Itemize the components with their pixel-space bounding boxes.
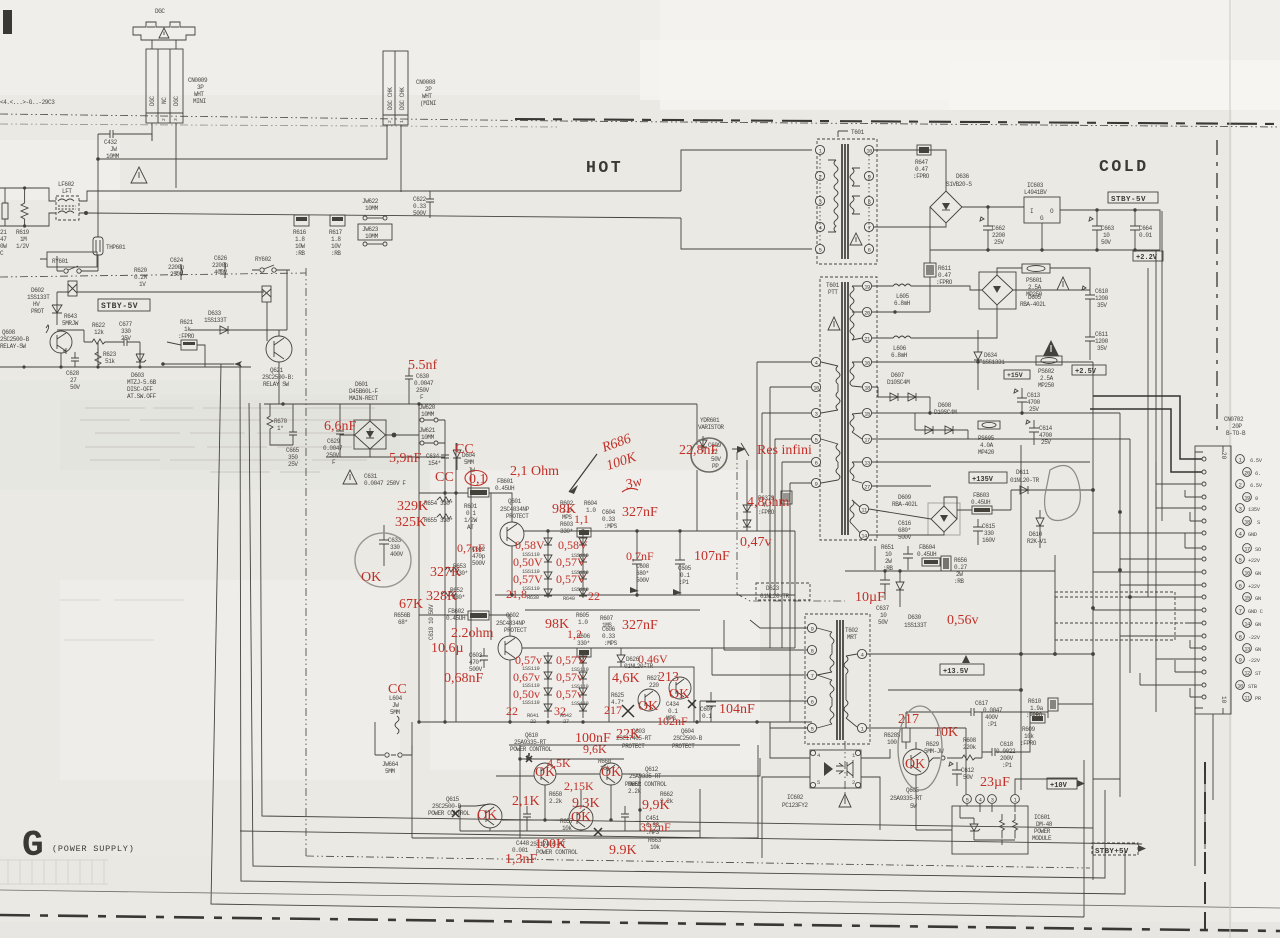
svg-text:STBY+5V: STBY+5V	[1095, 848, 1129, 856]
emitter wire Q601	[511, 546, 513, 595]
svg-text:Res infini: Res infini	[757, 443, 812, 458]
pin number 11	[1243, 693, 1252, 702]
svg-text:2200: 2200	[992, 232, 1006, 239]
svg-text:9,9K: 9,9K	[642, 798, 670, 813]
svg-text:MODULE: MODULE	[1032, 835, 1052, 842]
svg-text:0,68nF: 0,68nF	[444, 671, 484, 686]
svg-text:250V: 250V	[326, 452, 340, 459]
diode D630	[896, 571, 904, 607]
resistors inside module	[1000, 814, 1018, 839]
svg-text:C434: C434	[666, 701, 680, 708]
CN0009 pin texts DGC NC DGC	[149, 96, 180, 121]
wire Q605 top	[906, 712, 933, 762]
svg-text::FPRO: :FPRO	[178, 333, 195, 340]
resistor R654	[437, 497, 451, 502]
diode D628	[617, 648, 625, 667]
svg-text:22: 22	[506, 704, 518, 718]
T601PTT left pin 9	[811, 478, 820, 487]
svg-text:R656: R656	[954, 557, 968, 564]
svg-text:C614: C614	[1039, 425, 1053, 432]
svg-text:RBA-402L: RBA-402L	[1020, 301, 1046, 308]
T602 pin 6	[807, 696, 816, 705]
line filter LF602 body	[56, 196, 79, 220]
svg-text:10: 10	[885, 551, 892, 558]
T601PTT windings right	[850, 286, 854, 340]
wires pins 11/14 to D609	[869, 509, 944, 535]
diode ladder 2 left chain	[547, 652, 549, 718]
resistor R652	[442, 591, 456, 596]
svg-text:5: 5	[811, 726, 814, 733]
svg-text:0: 0	[1255, 495, 1258, 502]
svg-text:2W: 2W	[885, 558, 892, 565]
svg-text:R607: R607	[600, 615, 614, 622]
svg-text:0,57V: 0,57V	[556, 555, 586, 569]
pin number 2	[1236, 480, 1245, 489]
svg-text:R601: R601	[464, 503, 478, 510]
transistor Q615	[478, 804, 502, 828]
svg-text:R658: R658	[549, 791, 563, 798]
svg-text:0.33: 0.33	[602, 633, 616, 640]
T601 warning triangle	[850, 233, 862, 245]
svg-text::RB: :RB	[295, 250, 305, 257]
svg-text:1SS133T: 1SS133T	[27, 294, 50, 301]
T601PTT pin 19	[862, 281, 871, 290]
svg-text:GN: GN	[1255, 621, 1261, 628]
svg-text:OK: OK	[571, 810, 591, 825]
T601PTT core	[842, 282, 848, 535]
svg-text:C637: C637	[876, 605, 890, 612]
+2.5V legend box	[1072, 365, 1106, 375]
svg-text:2,1K: 2,1K	[512, 794, 540, 809]
svg-text:35V: 35V	[1097, 345, 1107, 352]
svg-text:R663: R663	[648, 837, 662, 844]
svg-text:AT.SW.OFF: AT.SW.OFF	[127, 393, 157, 400]
transistor Q603	[638, 689, 660, 711]
svg-text:0.0047: 0.0047	[323, 445, 343, 452]
svg-text:C604: C604	[602, 509, 616, 516]
svg-text:JW620: JW620	[419, 404, 436, 411]
chain line at relay level	[0, 273, 306, 277]
svg-text:CN0009: CN0009	[188, 77, 208, 84]
svg-text:330: 330	[121, 328, 131, 335]
svg-text:50V: 50V	[963, 774, 973, 781]
CN0009 leads down	[152, 123, 176, 141]
svg-text:-22V: -22V	[1248, 657, 1261, 664]
svg-text:C624: C624	[170, 257, 184, 264]
ferrite bead FB602	[468, 611, 489, 620]
svg-text:0.45UH: 0.45UH	[495, 485, 515, 492]
svg-text:6.: 6.	[1255, 470, 1261, 477]
regulator IC603	[1024, 197, 1060, 223]
resistor R670	[267, 404, 273, 440]
svg-text:0.0047: 0.0047	[983, 707, 1003, 714]
wire pin20 centre tap	[872, 311, 930, 313]
hot/cold dash-dot separator below T602	[844, 741, 846, 800]
svg-text:L605: L605	[896, 293, 910, 300]
svg-text:C663: C663	[1101, 225, 1115, 232]
svg-text:13: 13	[864, 460, 870, 467]
transistor Q608	[50, 331, 72, 353]
svg-text:C664: C664	[1139, 225, 1153, 232]
svg-text:Q608: Q608	[2, 329, 16, 336]
capacitor C617	[965, 708, 982, 716]
wires to PTT pins	[757, 362, 812, 722]
warning triangle mid	[131, 167, 147, 183]
svg-text:JW: JW	[110, 146, 117, 153]
svg-text:25V: 25V	[288, 461, 298, 468]
wire bridge bottom to ground rail	[929, 207, 931, 250]
svg-text:POWER CONTROL: POWER CONTROL	[510, 746, 552, 753]
svg-text::P1: :P1	[1002, 762, 1012, 769]
fuse PS601	[1022, 264, 1050, 273]
svg-text:5MM: 5MM	[390, 709, 400, 716]
svg-text:27: 27	[70, 377, 77, 384]
pin number 16	[1243, 568, 1252, 577]
svg-text:1.0: 1.0	[578, 619, 588, 626]
T602 winding right	[844, 656, 848, 718]
svg-text:PROTECT: PROTECT	[672, 743, 695, 750]
svg-text:500V: 500V	[472, 560, 486, 567]
svg-text:WHT: WHT	[422, 93, 432, 100]
svg-text:FB601: FB601	[497, 478, 514, 485]
svg-text:2.2k: 2.2k	[549, 798, 563, 805]
svg-text:15: 15	[1244, 595, 1250, 602]
svg-text::MPS: :MPS	[604, 523, 618, 530]
svg-text:5.5nf: 5.5nf	[408, 358, 438, 373]
AC input rails from left	[0, 188, 56, 226]
svg-text:JW621: JW621	[419, 427, 436, 434]
svg-text:4,6K: 4,6K	[612, 671, 640, 686]
svg-text:6: 6	[815, 460, 818, 467]
svg-text:0.0047 250V F: 0.0047 250V F	[364, 480, 406, 487]
svg-text:98K: 98K	[545, 617, 569, 632]
bridge rectifier D609	[931, 506, 957, 532]
left edge component column	[2, 188, 8, 226]
svg-text:0.27: 0.27	[954, 564, 968, 571]
svg-text:D609: D609	[898, 494, 912, 501]
pin number 6	[1236, 581, 1245, 590]
svg-text:PROTECT: PROTECT	[506, 513, 529, 520]
svg-text:25V: 25V	[994, 239, 1004, 246]
svg-text:D10SC4M: D10SC4M	[887, 379, 910, 386]
svg-text:R617: R617	[329, 229, 343, 236]
wire pin7 to bridge bottom	[874, 223, 946, 227]
left enclosure vertical line 3	[249, 403, 1105, 878]
svg-text:+22V: +22V	[1248, 583, 1261, 590]
svg-text:RELAY-SW: RELAY-SW	[0, 343, 26, 350]
svg-text::FPRO: :FPRO	[913, 173, 930, 180]
svg-text:PROTECT: PROTECT	[504, 627, 527, 634]
svg-text:9,6K: 9,6K	[583, 742, 607, 756]
svg-text:2200p: 2200p	[212, 262, 229, 269]
svg-text:0,67v: 0,67v	[513, 670, 540, 684]
svg-text:23µF: 23µF	[980, 775, 1010, 790]
svg-text:CC: CC	[455, 442, 474, 457]
svg-text:CN0008: CN0008	[416, 79, 436, 86]
svg-text:250V: 250V	[416, 387, 430, 394]
svg-text:220k: 220k	[963, 744, 977, 751]
transistor Q605	[903, 749, 929, 775]
capacitor C614	[1026, 420, 1039, 445]
power module IC601 box	[952, 806, 1028, 854]
capacitor C616	[903, 546, 913, 570]
svg-text:L4941BV: L4941BV	[1024, 189, 1047, 196]
rail y=595	[495, 594, 795, 596]
svg-text:67K: 67K	[399, 597, 423, 612]
svg-text:C603: C603	[469, 652, 483, 659]
svg-text:(POWER SUPPLY): (POWER SUPPLY)	[52, 844, 135, 854]
lower rail to right	[86, 213, 681, 218]
T601PTT pin 16	[862, 357, 871, 366]
svg-text:FB604: FB604	[919, 544, 936, 551]
svg-text:C610: C610	[1095, 288, 1109, 295]
wires into pins	[1090, 396, 1202, 472]
diode D602 symbol	[52, 292, 62, 325]
svg-text:R656B: R656B	[394, 612, 411, 619]
plug leads	[152, 40, 176, 49]
bridge rectifier D636	[930, 191, 962, 223]
X marks	[622, 705, 634, 717]
secondary faint chain top	[0, 124, 560, 127]
capacitor C433	[379, 525, 389, 566]
T601 pin 3	[815, 196, 824, 205]
svg-text:PS602: PS602	[1038, 368, 1055, 375]
svg-text:6.5V: 6.5V	[1250, 482, 1263, 489]
bottom rail relay section	[0, 366, 251, 368]
svg-text:2,15K: 2,15K	[564, 779, 594, 793]
svg-text:327nF: 327nF	[622, 618, 658, 633]
left enclosure vertical line 1	[211, 364, 1084, 917]
svg-text:LFT: LFT	[62, 188, 72, 195]
T601 dashed box	[817, 139, 877, 264]
wires opto left	[762, 722, 810, 858]
svg-text:HOT: HOT	[586, 158, 623, 177]
capacitor C665	[289, 404, 297, 445]
T602 dashed box	[805, 614, 870, 744]
T601PTT left pin 5	[811, 434, 820, 443]
inner dash-dot border vertical at x=306	[305, 268, 307, 858]
svg-text:21: 21	[0, 229, 7, 236]
svg-text:Q601: Q601	[508, 498, 522, 505]
svg-text:RELAY SW: RELAY SW	[263, 381, 289, 388]
svg-text:0,50v: 0,50v	[513, 687, 540, 701]
svg-text:20: 20	[1244, 470, 1250, 477]
resistor box WW	[577, 528, 591, 537]
capacitor C607	[706, 692, 716, 722]
svg-text:500V: 500V	[413, 210, 427, 217]
svg-text:10.6µ: 10.6µ	[431, 641, 464, 656]
svg-text:5MRJW: 5MRJW	[62, 320, 79, 327]
svg-text:C677: C677	[119, 321, 133, 328]
diode ladder 1 right chain	[582, 531, 584, 598]
svg-text:R608: R608	[963, 737, 977, 744]
svg-text::FPRO: :FPRO	[936, 279, 953, 286]
relay RY602 contacts	[260, 268, 264, 272]
svg-text:CC: CC	[388, 682, 407, 697]
svg-text:OK: OK	[905, 757, 925, 772]
svg-text:9,3K: 9,3K	[572, 796, 600, 811]
svg-text:0.1: 0.1	[702, 713, 712, 720]
svg-text:2: 2	[852, 779, 855, 786]
svg-text:D633: D633	[208, 310, 222, 317]
svg-text:6: 6	[811, 699, 814, 706]
svg-text:1M: 1M	[20, 236, 27, 243]
svg-text:17: 17	[864, 437, 870, 444]
svg-text:D636: D636	[956, 173, 970, 180]
svg-text:-22V: -22V	[1248, 634, 1261, 641]
svg-text:0,57V: 0,57V	[556, 572, 586, 586]
svg-text:1,1: 1,1	[574, 512, 589, 526]
transistor Q604	[669, 677, 691, 699]
svg-text:R2K-V1: R2K-V1	[1027, 538, 1047, 545]
svg-text:7: 7	[811, 673, 814, 680]
wire T602 pin4 right	[866, 653, 1093, 655]
svg-text:330*: 330*	[440, 517, 453, 524]
svg-text:5,9nF: 5,9nF	[389, 451, 422, 466]
svg-text:THP601: THP601	[106, 244, 126, 251]
svg-text:2.5A: 2.5A	[1040, 375, 1054, 382]
resistor R655	[437, 514, 451, 519]
svg-text:C612: C612	[961, 767, 975, 774]
svg-text:OK: OK	[638, 699, 658, 714]
svg-text:COLD: COLD	[1099, 157, 1149, 176]
T602 pin 8	[807, 645, 816, 654]
IC603 output wire	[1060, 210, 1160, 250]
+13.5V legend box	[940, 664, 984, 675]
capacitor C630	[405, 368, 413, 404]
svg-text:R640: R640	[563, 595, 575, 602]
top chain line (dash-dot page separator)	[0, 114, 1280, 127]
svg-text:Q615: Q615	[446, 796, 460, 803]
T601 secondary winding	[850, 168, 854, 214]
svg-text:FB602: FB602	[448, 608, 465, 615]
svg-text:PC123FY2: PC123FY2	[782, 802, 808, 809]
fusible resistor R647	[917, 145, 931, 155]
dashed rect right	[1055, 592, 1175, 640]
T602 pin 1	[857, 723, 866, 732]
svg-text:400V: 400V	[985, 714, 999, 721]
wire Q605 emitter	[915, 775, 917, 830]
svg-text:CC: CC	[435, 470, 454, 485]
svg-text:104nF: 104nF	[719, 702, 755, 717]
svg-text:0,46V: 0,46V	[638, 652, 668, 666]
wire relay down-left	[40, 256, 57, 271]
svg-text:327nF: 327nF	[622, 505, 658, 520]
T602 core	[837, 620, 843, 740]
svg-text::FPRO: :FPRO	[1020, 740, 1037, 747]
svg-text::P1: :P1	[679, 579, 689, 586]
svg-text:RY602: RY602	[255, 256, 272, 263]
fuse component near D602	[68, 281, 77, 296]
svg-text:325K: 325K	[395, 515, 426, 530]
T601PTT windings right lower	[850, 362, 854, 524]
junction dots input	[23, 186, 26, 189]
svg-text:10k: 10k	[1024, 733, 1034, 740]
coil L605	[872, 284, 982, 290]
svg-text:0.45UH: 0.45UH	[917, 551, 937, 558]
svg-text:6: 6	[868, 247, 871, 254]
ferrite bead FB601	[468, 488, 489, 497]
svg-text:(MINI: (MINI	[420, 100, 436, 107]
heavy dash line top right	[515, 119, 1280, 124]
svg-text:500V: 500V	[636, 577, 650, 584]
bridge rectifier D601	[354, 420, 386, 449]
svg-text:5MM: 5MM	[464, 459, 474, 466]
svg-text::P1: :P1	[987, 721, 997, 728]
secondary wires to right	[872, 362, 1130, 486]
svg-text:12: 12	[1244, 670, 1250, 677]
vertical bus x=471	[470, 470, 472, 665]
svg-text:C631: C631	[364, 473, 378, 480]
svg-text:C628: C628	[66, 370, 80, 377]
svg-text:JW: JW	[392, 702, 399, 709]
svg-text:0.2M: 0.2M	[134, 274, 148, 281]
svg-text:Q602: Q602	[506, 612, 520, 619]
RY601 switch contacts	[64, 269, 68, 273]
svg-text:15: 15	[864, 411, 870, 418]
svg-text:+22V: +22V	[1248, 557, 1261, 564]
connector CN0702 body	[1195, 446, 1231, 714]
svg-text:50V: 50V	[70, 384, 80, 391]
svg-text:10: 10	[866, 148, 872, 155]
svg-text:327K: 327K	[430, 565, 461, 580]
small fuse box to Q621 base	[262, 286, 271, 302]
pin number 5	[1236, 555, 1245, 564]
svg-text:20: 20	[1220, 452, 1227, 460]
vertical bus x=445	[444, 420, 446, 722]
svg-text:OK: OK	[535, 765, 555, 780]
svg-text:2SC4834NP: 2SC4834NP	[496, 620, 526, 627]
resistor R609	[1030, 714, 1045, 723]
T601PTT pin 15	[862, 408, 871, 417]
fuse PS605	[978, 421, 1000, 429]
svg-text:1200: 1200	[1095, 295, 1109, 302]
svg-text:0.01: 0.01	[1139, 232, 1153, 239]
diode D604	[453, 443, 461, 470]
resistor R637	[781, 491, 792, 504]
D623 dashed label box	[756, 583, 810, 600]
svg-text:0,57v: 0,57v	[515, 653, 542, 667]
pin number 14	[1243, 619, 1252, 628]
svg-text:R610: R610	[1028, 698, 1042, 705]
warning triangle C631	[343, 470, 357, 484]
svg-text:2SC4834NP: 2SC4834NP	[500, 506, 530, 513]
wire D605 right vertex	[1013, 289, 1090, 291]
bottom-right verticals	[1195, 700, 1205, 866]
svg-text:0,57v: 0,57v	[556, 687, 583, 701]
svg-text:STB: STB	[1248, 683, 1258, 690]
svg-text:10V: 10V	[331, 243, 341, 250]
wires power control	[460, 745, 760, 838]
svg-text:D634: D634	[984, 352, 998, 359]
warning triangle near PS601	[1057, 277, 1069, 290]
inner dash-dot border bottom y=858	[306, 856, 1090, 868]
pin number 12	[1243, 668, 1252, 677]
svg-text:13: 13	[1244, 646, 1250, 653]
bridge output node	[392, 433, 397, 438]
svg-text:0,47v: 0,47v	[740, 535, 772, 550]
T601 pin 6	[864, 244, 873, 253]
svg-text:25V: 25V	[121, 335, 131, 342]
connector bottom lead	[1212, 714, 1214, 800]
svg-text:B-TO-B: B-TO-B	[1226, 430, 1246, 437]
svg-text:R604: R604	[584, 500, 598, 507]
connector CN0008 body	[383, 51, 408, 125]
capacitor C629	[336, 404, 354, 457]
svg-text:10k: 10k	[650, 844, 660, 851]
svg-text:DISC-OFF: DISC-OFF	[127, 386, 153, 393]
svg-text:9.9K: 9.9K	[609, 843, 637, 858]
